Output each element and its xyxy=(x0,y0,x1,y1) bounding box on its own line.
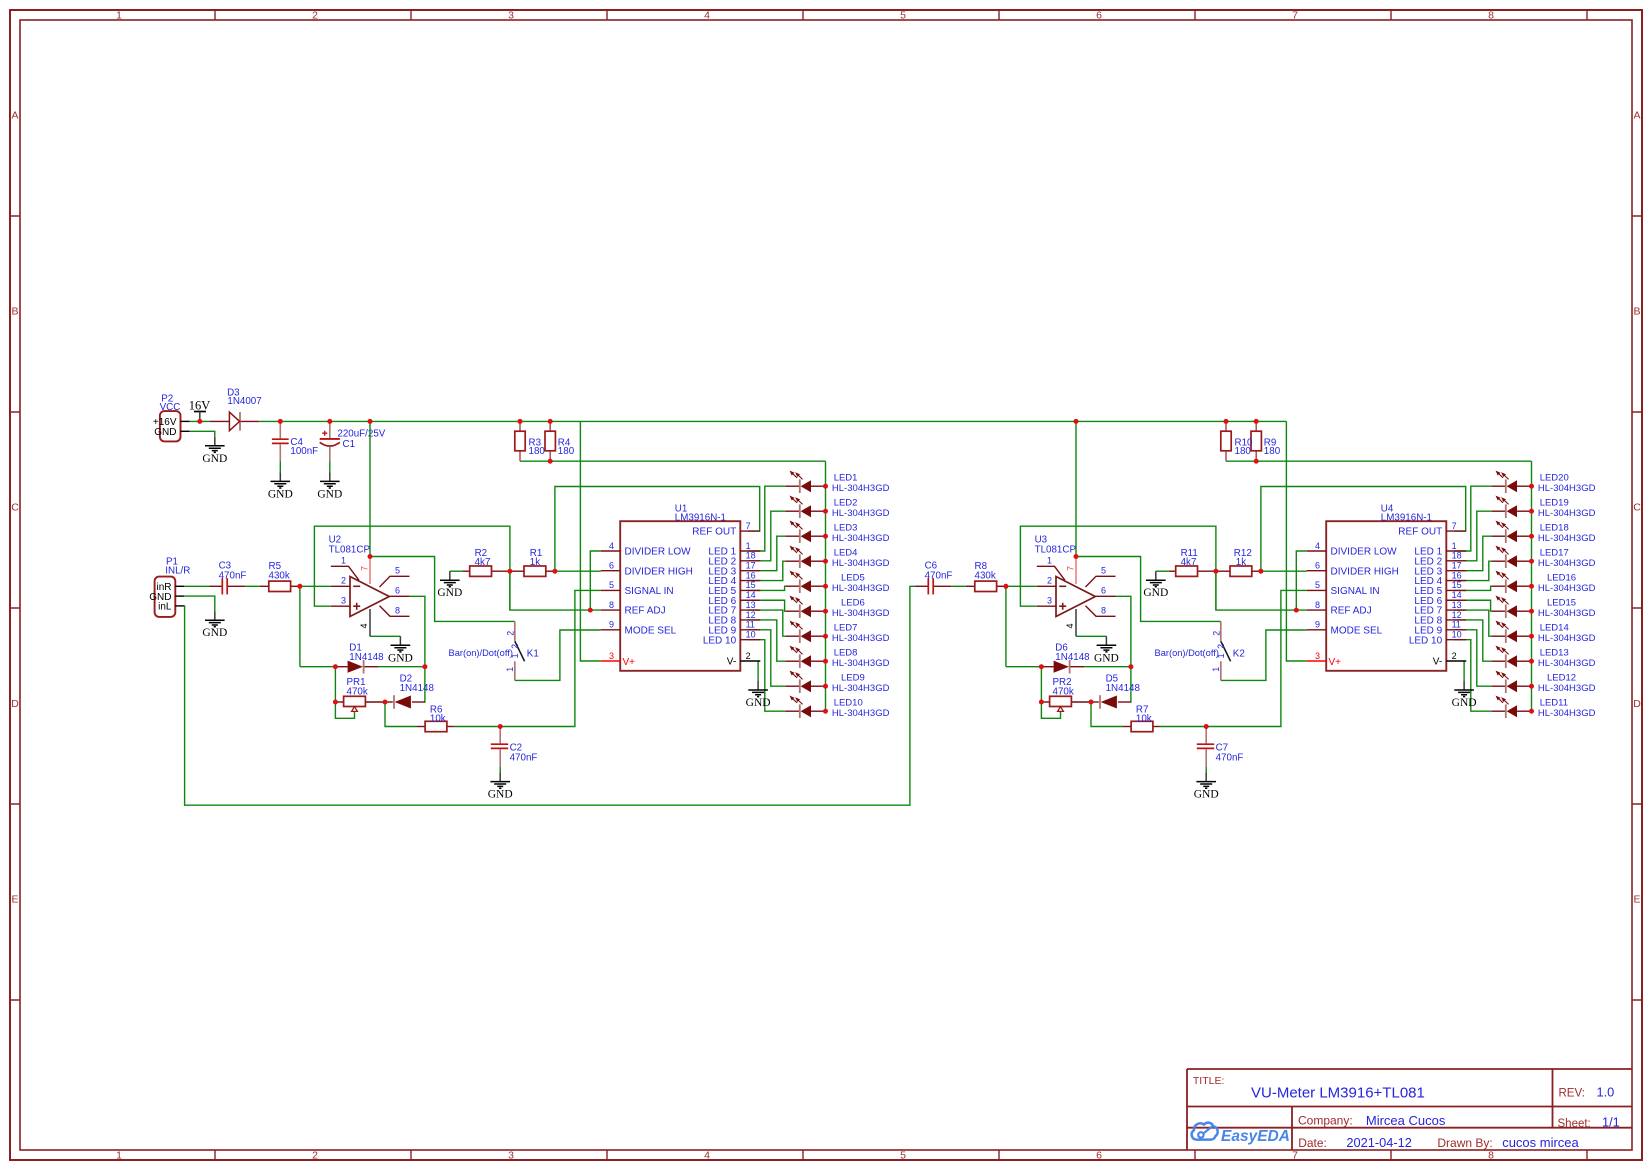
svg-text:C6: C6 xyxy=(925,561,938,572)
svg-text:R10: R10 xyxy=(1235,437,1254,448)
ground flag at P2 xyxy=(202,437,227,465)
wire P2 GND pin to ground xyxy=(190,431,215,437)
svg-text:R8: R8 xyxy=(975,561,988,572)
svg-text:E: E xyxy=(11,894,18,906)
svg-text:D: D xyxy=(1633,698,1641,710)
ground flag at C1 xyxy=(317,472,342,500)
svg-text:R5: R5 xyxy=(269,561,282,572)
svg-text:R7: R7 xyxy=(1136,704,1149,715)
frame column numbers top xyxy=(116,10,1494,22)
svg-text:LED7: LED7 xyxy=(834,622,858,633)
svg-text:1.0: 1.0 xyxy=(1597,1085,1615,1100)
svg-text:C: C xyxy=(11,502,19,514)
svg-text:A: A xyxy=(1633,110,1640,122)
svg-text:8: 8 xyxy=(1488,1150,1494,1162)
svg-text:LED17: LED17 xyxy=(1540,547,1569,558)
svg-text:7: 7 xyxy=(1292,1150,1298,1162)
svg-text:3: 3 xyxy=(508,1150,514,1162)
svg-text:1N4007: 1N4007 xyxy=(227,396,261,407)
svg-text:100nF: 100nF xyxy=(290,446,318,457)
svg-text:LED13: LED13 xyxy=(1540,647,1569,658)
svg-text:TITLE:: TITLE: xyxy=(1193,1075,1225,1087)
svg-text:Sheet:: Sheet: xyxy=(1558,1118,1591,1130)
svg-text:16V: 16V xyxy=(189,398,211,412)
channel instances xyxy=(210,419,890,801)
wire P1 inR to input cap C3 xyxy=(184,585,209,587)
title block xyxy=(1187,1069,1632,1150)
right channel (translated copy) xyxy=(916,419,1596,801)
svg-text:LED14: LED14 xyxy=(1540,622,1569,633)
svg-text:EasyEDA: EasyEDA xyxy=(1221,1128,1290,1145)
svg-text:LED18: LED18 xyxy=(1540,522,1569,533)
svg-text:LED10: LED10 xyxy=(834,697,863,708)
svg-text:3: 3 xyxy=(508,10,514,22)
svg-text:7: 7 xyxy=(1292,10,1298,22)
wire C4 to ground xyxy=(279,461,281,472)
svg-text:6: 6 xyxy=(1096,1150,1102,1162)
svg-text:2: 2 xyxy=(312,10,318,22)
svg-text:1/1: 1/1 xyxy=(1602,1115,1620,1130)
svg-text:R2: R2 xyxy=(475,548,488,559)
capacitor C1 220uF/25V polarized xyxy=(320,421,340,461)
net flag 16V xyxy=(189,398,211,421)
svg-text:U2: U2 xyxy=(329,534,342,545)
diode D3 1N4007 xyxy=(210,412,260,431)
ground flag at C4 xyxy=(268,472,293,500)
wire inL long link to right channel input xyxy=(184,586,915,805)
svg-text:LED4: LED4 xyxy=(834,547,858,558)
svg-text:LED1: LED1 xyxy=(834,472,858,483)
svg-text:U1: U1 xyxy=(675,503,688,514)
svg-text:C1: C1 xyxy=(343,439,356,450)
svg-text:K2: K2 xyxy=(1233,649,1245,660)
svg-text:6: 6 xyxy=(1096,10,1102,22)
svg-text:R6: R6 xyxy=(430,704,443,715)
svg-text:Drawn By:: Drawn By: xyxy=(1437,1136,1492,1150)
svg-text:REV:: REV: xyxy=(1559,1088,1585,1100)
svg-text:LED16: LED16 xyxy=(1547,572,1576,583)
svg-text:Mircea Cucos: Mircea Cucos xyxy=(1366,1113,1446,1128)
svg-text:R9: R9 xyxy=(1264,437,1277,448)
capacitor C4 100nF xyxy=(272,421,289,461)
svg-text:D6: D6 xyxy=(1055,643,1068,654)
svg-text:Company:: Company: xyxy=(1298,1113,1353,1127)
svg-text:LED15: LED15 xyxy=(1547,597,1576,608)
svg-text:B: B xyxy=(11,306,18,318)
svg-text:Date:: Date: xyxy=(1298,1136,1327,1150)
svg-text:1: 1 xyxy=(116,1150,122,1162)
svg-text:LED11: LED11 xyxy=(1540,697,1568,708)
svg-text:D1: D1 xyxy=(349,643,362,654)
svg-text:1: 1 xyxy=(116,10,122,22)
connector P2 VCC xyxy=(153,411,190,441)
svg-text:220uF/25V: 220uF/25V xyxy=(337,428,385,439)
svg-text:cucos mircea: cucos mircea xyxy=(1502,1135,1579,1150)
svg-text:LED9: LED9 xyxy=(841,672,865,683)
svg-text:K1: K1 xyxy=(527,649,539,660)
svg-text:4: 4 xyxy=(704,10,710,22)
svg-text:LED20: LED20 xyxy=(1540,472,1569,483)
svg-text:LED5: LED5 xyxy=(841,572,865,583)
svg-text:4: 4 xyxy=(704,1150,710,1162)
frame row letters xyxy=(11,110,1641,906)
wire P1 GND pin to ground xyxy=(184,596,215,611)
svg-text:D: D xyxy=(11,698,19,710)
svg-text:LED6: LED6 xyxy=(841,597,865,608)
VCC rail wire xyxy=(259,420,1286,422)
wire C1 to ground xyxy=(329,461,331,472)
junction 16V node xyxy=(197,419,202,424)
svg-text:2: 2 xyxy=(312,1150,318,1162)
connector P1 INL/R xyxy=(149,577,184,617)
svg-text:R11: R11 xyxy=(1181,548,1198,559)
svg-text:PR1: PR1 xyxy=(347,677,366,688)
svg-text:GND: GND xyxy=(154,427,176,438)
svg-text:8: 8 xyxy=(1488,10,1494,22)
svg-text:C7: C7 xyxy=(1216,743,1229,754)
svg-text:LED2: LED2 xyxy=(834,497,858,508)
junction C4 node xyxy=(278,419,283,424)
svg-text:VU-Meter LM3916+TL081: VU-Meter LM3916+TL081 xyxy=(1251,1084,1425,1101)
svg-text:R3: R3 xyxy=(529,437,542,448)
svg-text:inL: inL xyxy=(158,602,172,613)
svg-text:C3: C3 xyxy=(219,561,232,572)
svg-text:R12: R12 xyxy=(1234,548,1252,559)
svg-text:5: 5 xyxy=(900,10,906,22)
svg-text:R1: R1 xyxy=(530,548,543,559)
svg-text:5: 5 xyxy=(900,1150,906,1162)
svg-text:E: E xyxy=(1633,894,1640,906)
svg-text:LED19: LED19 xyxy=(1540,497,1569,508)
junction C1 node xyxy=(327,419,332,424)
svg-text:LED8: LED8 xyxy=(834,647,858,658)
svg-text:C: C xyxy=(1633,502,1641,514)
ground flag at P1 xyxy=(202,611,227,639)
svg-text:LED3: LED3 xyxy=(834,522,858,533)
svg-text:2021-04-12: 2021-04-12 xyxy=(1346,1135,1411,1150)
svg-text:B: B xyxy=(1633,306,1640,318)
wire P2 to 16V node and D3 xyxy=(190,420,210,422)
svg-text:D5: D5 xyxy=(1106,674,1119,685)
svg-text:U3: U3 xyxy=(1035,534,1048,545)
svg-text:R4: R4 xyxy=(558,437,571,448)
svg-text:INL/R: INL/R xyxy=(165,566,190,577)
EasyEDA logo xyxy=(1192,1123,1290,1145)
svg-text:VCC: VCC xyxy=(160,402,181,413)
frame column numbers bottom xyxy=(116,1150,1494,1162)
left channel reference designators xyxy=(219,437,688,753)
svg-text:D2: D2 xyxy=(400,674,413,685)
svg-text:PR2: PR2 xyxy=(1053,677,1072,688)
svg-text:A: A xyxy=(11,110,18,122)
svg-text:U4: U4 xyxy=(1381,503,1394,514)
svg-text:C2: C2 xyxy=(510,743,523,754)
right channel reference designators xyxy=(925,437,1394,753)
svg-text:LED12: LED12 xyxy=(1547,672,1576,683)
